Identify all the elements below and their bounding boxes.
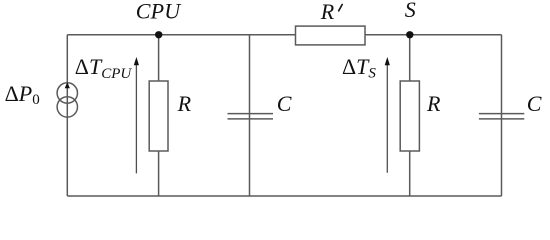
current source arrowhead: [65, 82, 70, 88]
svg-text:CPU: CPU: [136, 0, 183, 23]
node S (junction dot): [406, 31, 413, 38]
resistor R (right, vertical box): [400, 81, 419, 151]
wire left side (through current source): [66, 35, 68, 196]
resistor R (left, vertical box): [149, 81, 168, 151]
wire left resistor R to bottom: [158, 151, 160, 196]
capacitor C (left, horizontal plates): [228, 114, 274, 119]
current source ΔP0 (two overlapping circles): [57, 83, 77, 117]
arrow ΔT_CPU: [134, 57, 139, 173]
wire right side (through right capacitor): [501, 35, 503, 196]
wire CPU node to left resistor R: [158, 35, 160, 81]
wire top-right segment (R' right to right corner): [365, 34, 502, 36]
svg-text:C: C: [527, 91, 542, 116]
node CPU (junction dot): [155, 31, 162, 38]
svg-text:S: S: [405, 0, 416, 22]
wire top-left segment (left corner to R' left): [67, 34, 295, 36]
svg-text:R: R: [320, 0, 335, 24]
svg-text:R: R: [426, 91, 441, 116]
wire S node to right resistor R: [409, 35, 411, 81]
svg-text:R: R: [177, 91, 192, 116]
wire middle branch (through left capacitor): [249, 35, 251, 196]
svg-text:C: C: [277, 91, 292, 116]
wire bottom: [67, 195, 501, 197]
capacitor C (right, horizontal plates): [479, 114, 524, 119]
resistor R' (horizontal box): [296, 26, 366, 45]
arrow ΔT_S: [385, 57, 390, 173]
wire right resistor R to bottom: [409, 151, 411, 196]
